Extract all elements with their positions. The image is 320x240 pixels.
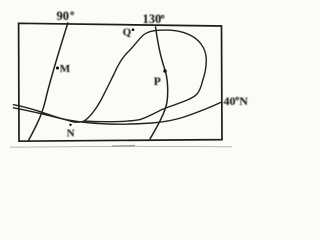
svg-text:90: 90 [57, 9, 70, 23]
svg-text:P: P [154, 76, 161, 88]
svg-text:Q: Q [123, 27, 132, 39]
svg-text:N: N [67, 127, 75, 139]
svg-text:M: M [60, 63, 71, 75]
svg-text:40: 40 [224, 94, 236, 108]
svg-text:130: 130 [143, 12, 162, 26]
svg-text:N: N [239, 94, 248, 108]
